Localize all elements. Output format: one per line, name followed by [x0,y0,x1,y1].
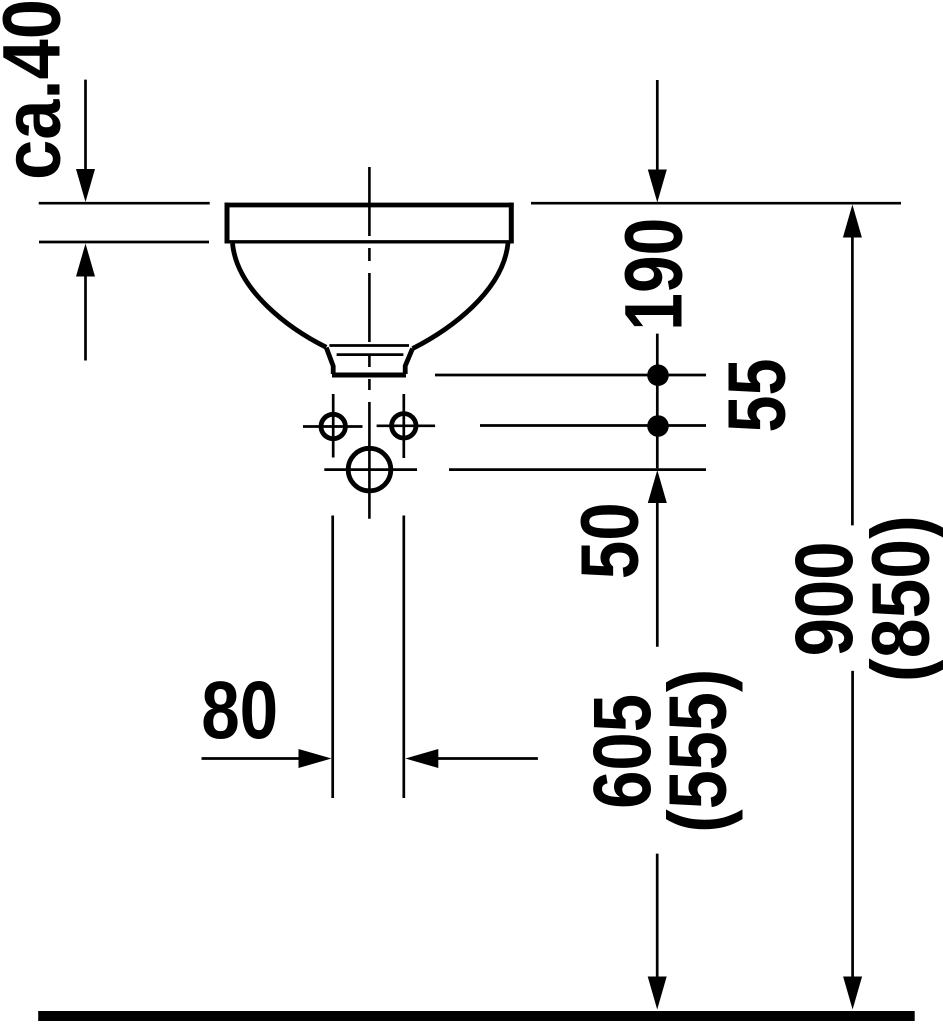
washbasin rim bottom edge [225,240,514,243]
trap left side [326,348,333,374]
faucet hole right crosshair vertical [402,394,405,458]
faucet hole right crosshair horizontal [377,424,436,427]
dot upper [647,364,669,386]
extension line rim top left [39,202,210,205]
ca.40 down arrowhead [76,169,95,202]
extension line 80 right vertical [402,516,405,799]
dimension line through dots [656,334,659,469]
faucet hole left crosshair horizontal [303,425,363,428]
trap right side [405,349,412,374]
dimension line 190: upper segment with down arrowhead [656,80,659,172]
faucet hole left circle [321,414,345,438]
drain hole crosshair horizontal [324,468,417,471]
svg-text:(555): (555) [653,669,744,833]
extension line rim top right [531,202,901,205]
bowl right arc [413,243,509,349]
svg-text:55: 55 [712,359,803,433]
extension line trap-bottom level right [435,374,706,377]
extension line 80 left vertical [331,516,334,799]
dimension line 605 lower segment with down arrowhead [656,854,659,978]
svg-text:50: 50 [565,502,656,579]
trap flange line 2 [337,353,404,356]
faucet hole right circle [392,414,416,438]
faucet hole left crosshair vertical [332,394,335,458]
dimension 80 left line and right arrowhead [202,757,301,760]
dimension 50 up arrowhead and line [648,470,667,503]
svg-text:ca.40: ca.40 [0,0,78,180]
extension line faucet-hole level right [480,424,706,427]
washbasin rim right edge [509,203,514,244]
washbasin rim left edge [225,203,230,244]
trap bottom [332,373,406,378]
ca.40 upper arrow line [84,80,87,172]
trap flange line 1 [329,344,409,347]
svg-text:80: 80 [201,665,278,756]
ca.40 lower arrow line [84,274,87,361]
dimension line 900 lower segment with down arrowhead [851,671,854,978]
center line dash-dot [368,167,371,390]
extension line rim bottom left [39,241,209,244]
extension line drain level right [449,468,706,471]
dimension 80 right line and left arrowhead [437,757,538,760]
dimension line 900: top up arrowhead [843,205,862,238]
floor line [38,1011,915,1021]
center line solid through big hole [368,402,371,519]
bowl left arc [233,244,327,348]
ca.40 up arrowhead [76,244,95,277]
washbasin rim top edge [225,203,514,208]
svg-text:(850): (850) [855,515,943,682]
drain hole big circle [348,448,391,491]
dot lower [647,415,669,437]
svg-text:190: 190 [608,218,699,331]
